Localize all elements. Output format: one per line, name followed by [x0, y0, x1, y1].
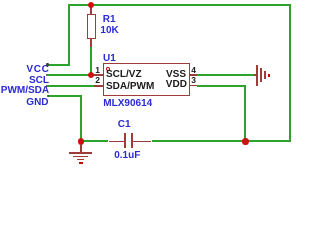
terminal dot GND — [47, 95, 49, 97]
wire GND terminal horizontal — [48, 95, 82, 97]
resistor R1 bottom lead — [90, 39, 92, 47]
pin number 3 — [191, 76, 196, 84]
pin number 4 — [191, 66, 196, 74]
pin number 2 — [95, 76, 100, 84]
wire U1 pin 4 VSS to chassis ground — [197, 74, 254, 76]
wire R1 bottom lead (green part) down to SCL junction — [90, 47, 92, 76]
U1 origin marker circle — [106, 67, 110, 71]
ground symbol right: origin tick — [268, 74, 270, 77]
pin 2 stub — [94, 85, 103, 87]
capacitor C1 plate 1 — [124, 133, 126, 148]
label U1 — [103, 54, 116, 64]
label R1 — [103, 15, 116, 25]
label C1 — [118, 120, 131, 130]
capacitor C1 plate 2 — [131, 133, 133, 148]
junction SCL / R1 bottom — [88, 72, 94, 78]
ground symbol bottom: bar 1 — [69, 152, 92, 154]
pin number 1 — [95, 66, 100, 74]
wire PWM/SDA row from terminal to U1 pin 2 — [48, 85, 96, 87]
label 10K — [100, 26, 118, 36]
pin 1 stub — [94, 74, 103, 76]
ground symbol right: bar 3 — [264, 71, 266, 79]
ground symbol right: bar 1 — [256, 65, 258, 87]
resistor R1 body — [87, 14, 96, 39]
resistor R1 top lead — [90, 5, 92, 15]
pin 4 stub — [189, 74, 197, 76]
wire SCL row from terminal to U1 pin 1 — [48, 74, 96, 76]
wire right vertical from top rail down to bottom rail — [289, 4, 291, 142]
ground symbol bottom: lead — [80, 144, 82, 152]
pin name SCL/VZ — [106, 70, 142, 80]
terminal dot VCC — [46, 63, 48, 65]
junction VDD / bottom rail — [242, 138, 248, 144]
ground symbol bottom: bar 3 — [77, 159, 85, 161]
IC U1 MLX90614 body — [103, 63, 190, 97]
terminal PWM/SDA label — [1, 86, 49, 96]
capacitor C1 right lead — [133, 141, 151, 143]
wire left vertical from top rail down to VCC terminal — [68, 4, 70, 66]
wire bottom rail left segment (ground junction to C1) — [80, 140, 109, 142]
pin name VSS — [166, 70, 186, 80]
wire top horizontal VCC rail — [68, 4, 292, 6]
ground symbol bottom: origin tick — [79, 162, 83, 164]
wire VCC terminal horizontal — [48, 64, 70, 66]
wire GND vertical down to bottom rail — [80, 95, 82, 142]
pin name SDA/PWM — [106, 82, 154, 92]
ground symbol right: bar 2 — [260, 68, 262, 82]
wire bottom rail right segment (C1 right to bottom-right corner) — [152, 140, 292, 142]
junction top (R1 / VCC rail) — [88, 2, 94, 8]
capacitor C1 left lead — [109, 141, 125, 143]
ground symbol right (rotated): lead — [254, 74, 257, 76]
wire U1 pin 3 VDD horizontal — [197, 85, 246, 87]
terminal VCC label — [26, 65, 49, 75]
terminal dot SCL — [46, 74, 48, 76]
pin 3 stub — [189, 85, 197, 87]
ground symbol bottom: bar 2 — [73, 156, 89, 158]
terminal GND label — [26, 98, 48, 108]
label MLX90614 — [103, 99, 152, 109]
pin name VDD — [166, 80, 187, 90]
junction GND / bottom rail — [78, 138, 84, 144]
terminal SCL label — [29, 76, 49, 86]
label 0.1uF — [114, 151, 140, 161]
terminal dot PWM/SDA — [46, 85, 48, 87]
wire VDD vertical down to bottom rail — [244, 85, 246, 143]
